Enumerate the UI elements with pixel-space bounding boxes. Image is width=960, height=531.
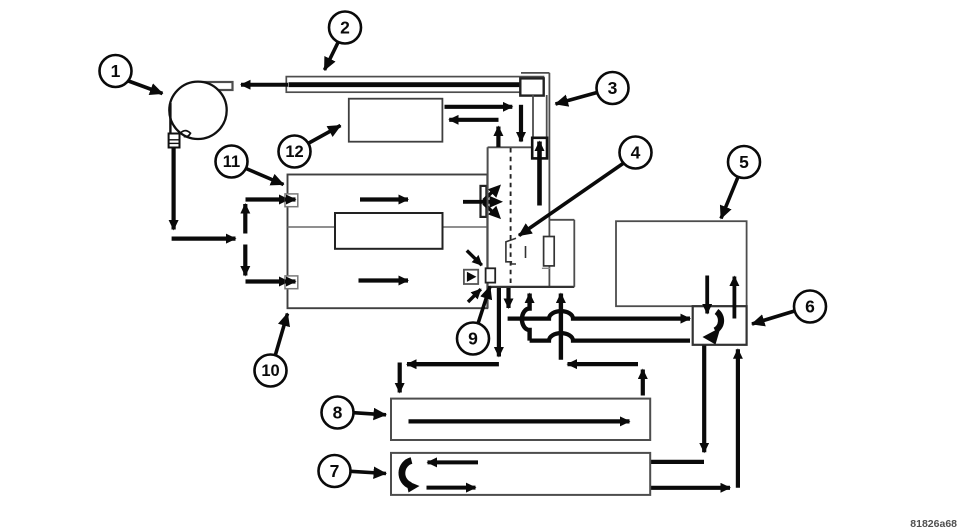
callout 4 [519, 137, 652, 236]
callout 1 [100, 55, 163, 94]
riser duct left line [532, 95, 534, 147]
svg-text:7: 7 [330, 461, 340, 481]
wire right arrow out of box 7 [608, 486, 731, 490]
wire flow line 1 to box 6 with hop [508, 311, 690, 318]
wire long down arrow below plenum [497, 288, 501, 357]
wire plenum top right arrow [445, 105, 513, 109]
svg-text:4: 4 [631, 143, 641, 163]
blower motor (1) [169, 82, 233, 148]
wire diag arrow lower-left to sensor [468, 289, 481, 302]
box 8 [391, 399, 650, 440]
wire arrowhead through inlet 11 [285, 197, 296, 201]
wire right arrow in box 7 [427, 486, 476, 490]
wire plenum down arrow [519, 105, 523, 142]
air distribution duct (2) long bar [286, 77, 543, 93]
wire left arrow into box 7 [609, 460, 705, 464]
wire blower down arrow [172, 148, 176, 230]
recirc crescent in box 7 [402, 461, 420, 493]
box 6 [693, 306, 747, 345]
wire arrow into upper inlet [246, 197, 289, 201]
evaporator tab [542, 267, 550, 269]
callout 3 [556, 72, 629, 104]
wire corner right arrow [172, 237, 236, 241]
duct corner lip [521, 72, 549, 74]
svg-text:11: 11 [223, 153, 240, 171]
wire vent up arrow [537, 142, 542, 206]
svg-text:9: 9 [468, 329, 478, 349]
riser duct right line [546, 95, 548, 138]
plenum top edge [488, 146, 533, 148]
recirculation door (4) [506, 238, 516, 264]
wire lower duct arrow [359, 278, 409, 282]
svg-text:81826a68: 81826a68 [910, 518, 957, 530]
wire long arrow in box 8 [409, 419, 630, 423]
box 5 [616, 221, 747, 306]
recirc crescent in box 6 [703, 312, 722, 345]
svg-text:1: 1 [111, 61, 121, 81]
wire splitter up-right arrow [484, 185, 502, 201]
svg-text:12: 12 [285, 143, 303, 161]
callout 5 [721, 146, 760, 219]
plenum left edge [487, 147, 489, 308]
heater core [335, 213, 443, 249]
vent box with up arrow [532, 138, 547, 159]
svg-text:5: 5 [739, 152, 749, 172]
wire left arrow in box 7 [428, 460, 479, 464]
HVAC housing (10/11) [288, 175, 488, 309]
wire left arrow to riser 2 [568, 362, 639, 366]
svg-text:8: 8 [333, 403, 343, 423]
wire up arrow right of box 7 [736, 349, 740, 488]
callout 2 [325, 12, 362, 71]
box 7 [391, 453, 650, 495]
wire riser 1 with left bulge [522, 294, 530, 341]
wire vertical splitter down segment [243, 245, 247, 276]
wire left feed line above box 8 [407, 362, 499, 366]
aspirator box with triangle [464, 270, 478, 284]
wire down arrow below box 6 [702, 346, 706, 453]
blend door box on housing right edge [481, 186, 487, 217]
wire vertical splitter up segment [243, 204, 247, 234]
wire diag arrow upper-left to sensor [467, 251, 482, 266]
callout 7 [319, 455, 387, 487]
wire riser 2 [559, 294, 563, 360]
wire arrow from duct to blower [241, 83, 288, 87]
wire short down arrow below plenum [506, 288, 510, 308]
wire flow line 2 to box 6 with hop [530, 333, 690, 340]
wire up arrow box6 to box5 [733, 277, 737, 319]
svg-text:3: 3 [608, 78, 618, 98]
door pivot line [525, 246, 527, 258]
wire splitter straight arrow [463, 196, 503, 208]
plenum dashed partition [510, 148, 512, 286]
callout 12 [279, 126, 341, 168]
housing mid divider left [288, 226, 336, 228]
duct end block [520, 78, 543, 95]
wire upper duct arrow [360, 197, 408, 201]
box 12 [349, 99, 443, 142]
plenum bottom edge [488, 286, 575, 288]
right outer duct line (3) [548, 73, 550, 287]
wire down arrow box5 to box6 [705, 276, 709, 314]
wire plenum short up arrow [496, 127, 500, 148]
callout 9 [457, 287, 490, 355]
callout 8 [322, 397, 387, 429]
evaporator element [544, 237, 555, 266]
svg-text:2: 2 [340, 18, 350, 38]
callout 6 [752, 291, 826, 325]
evaporator housing right box [549, 220, 574, 287]
wire arrow into lower inlet [246, 279, 289, 283]
wire arrowhead through inlet 10 [285, 279, 296, 283]
callout 11 [216, 146, 284, 185]
sensor square (9) [486, 268, 496, 282]
wire plenum top left arrow [449, 118, 498, 122]
housing mid divider right [443, 226, 488, 228]
wire up arrow from box 8 [641, 370, 645, 396]
svg-text:10: 10 [261, 362, 279, 380]
callout 10 [255, 314, 288, 387]
inlet box 11 [285, 194, 298, 207]
wire down arrow into box 8 [398, 363, 402, 393]
wire splitter down-right arrow [484, 203, 502, 219]
inlet box 10 [285, 276, 298, 289]
svg-text:6: 6 [805, 297, 815, 317]
